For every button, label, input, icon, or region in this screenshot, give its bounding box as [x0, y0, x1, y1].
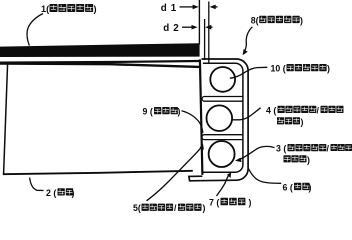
- svg-text:d: d: [161, 3, 167, 14]
- svg-text:3 (: 3 (: [276, 144, 286, 154]
- svg-text:7 (: 7 (: [209, 197, 219, 207]
- svg-text:): ): [249, 197, 252, 207]
- svg-text:4 (: 4 (: [266, 105, 276, 115]
- svg-text:): ): [94, 4, 97, 14]
- svg-text:8(: 8(: [251, 15, 259, 25]
- svg-text:2: 2: [173, 23, 179, 34]
- svg-text:9 (: 9 (: [143, 107, 153, 117]
- svg-text:): ): [309, 182, 312, 192]
- svg-text:2 (: 2 (: [46, 188, 56, 198]
- svg-text:6 (: 6 (: [283, 182, 293, 192]
- svg-text:): ): [307, 155, 310, 165]
- svg-text:5(: 5(: [133, 203, 141, 213]
- svg-text:): ): [327, 64, 330, 74]
- svg-text:1(: 1(: [41, 4, 50, 14]
- svg-text:10 (: 10 (: [271, 64, 286, 74]
- svg-text:): ): [301, 117, 304, 127]
- svg-text:): ): [72, 188, 75, 198]
- svg-text:d: d: [163, 23, 169, 34]
- svg-text:1: 1: [171, 3, 177, 14]
- svg-text:): ): [203, 203, 206, 213]
- svg-text:): ): [300, 15, 303, 25]
- svg-text:): ): [178, 107, 181, 117]
